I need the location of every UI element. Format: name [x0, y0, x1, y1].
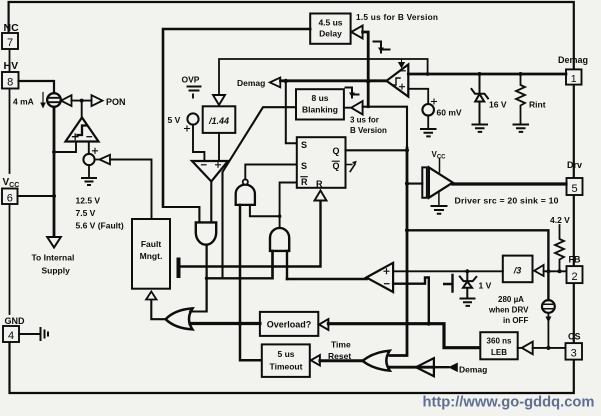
svg-text:Mngt.: Mngt.	[140, 251, 163, 261]
or-gate fault (mirrored)	[166, 308, 193, 329]
current source 280uA	[542, 300, 555, 313]
arrow into timeout right	[311, 355, 320, 366]
label minus FB comp	[385, 283, 390, 285]
wire divider3 output to comparator plus	[393, 270, 503, 272]
junction FB resistor	[558, 269, 562, 273]
svg-text:OVP: OVP	[182, 75, 200, 85]
svg-text:Rint: Rint	[529, 100, 546, 110]
pin 6 Vcc	[2, 189, 18, 205]
junction timeout riser	[238, 321, 242, 325]
capacitor bar FB minus	[444, 275, 452, 292]
nand-gate N1 (up, bubble)	[236, 185, 255, 205]
wire ref select to Fault Mngt	[110, 160, 152, 219]
op-amp demag comparator	[387, 65, 409, 97]
arrow to PON left	[61, 95, 72, 106]
svg-text:Blanking: Blanking	[302, 105, 338, 115]
box 360ns LEB	[480, 332, 517, 359]
junction zener demag line	[478, 72, 482, 76]
junction minus riser overload line	[427, 322, 431, 326]
junction PON	[80, 99, 84, 103]
label plus 60mV	[432, 99, 437, 104]
svg-text:4 mA: 4 mA	[13, 97, 34, 107]
svg-text:PON: PON	[106, 97, 126, 107]
ground driver	[432, 206, 447, 214]
wire delay output to AND input line	[163, 29, 310, 207]
wire pin7 to pin8	[9, 49, 11, 71]
and-gate A2 (up)	[270, 228, 289, 251]
wire A2 right input	[286, 251, 288, 279]
arrow demag input	[449, 363, 457, 371]
label plus OVP	[216, 162, 221, 167]
svg-text:8 us: 8 us	[311, 93, 328, 103]
wire driver ground	[438, 192, 440, 206]
wire or output to fault arrow	[151, 300, 165, 319]
label plus 5V	[185, 126, 190, 131]
wire demag plus to 60mV	[408, 89, 428, 104]
capacitor OVP symbol	[188, 87, 201, 98]
wire or timeout bottom input	[390, 366, 434, 369]
svg-text:S: S	[301, 140, 307, 150]
svg-text:R: R	[316, 179, 323, 189]
label plus ref	[93, 148, 98, 153]
wire overload sense line	[328, 324, 480, 348]
svg-text:7: 7	[7, 37, 13, 49]
junction HV rail tap	[52, 150, 56, 154]
label minus UVLO	[87, 136, 92, 138]
hysteresis glyph demag	[392, 78, 400, 85]
svg-text:Q: Q	[333, 161, 340, 171]
wire fault line A	[180, 201, 321, 267]
svg-text:3 us for: 3 us for	[350, 116, 379, 125]
svg-text:1: 1	[571, 73, 577, 85]
svg-text:5 us: 5 us	[277, 349, 294, 359]
wire pin8 to Vcc pin	[9, 89, 11, 173]
wire ref to ground	[88, 165, 90, 177]
svg-text:NC: NC	[4, 22, 20, 34]
label plus UVLO	[73, 134, 79, 140]
svg-text:in OFF: in OFF	[503, 316, 528, 325]
bar fault output	[177, 260, 181, 277]
svg-text:Overload?: Overload?	[267, 320, 312, 330]
pulse glyph near blanking	[346, 88, 359, 98]
svg-text:Delay: Delay	[319, 29, 342, 39]
wire nand output to latch S mid	[245, 165, 296, 180]
wire current source to Vcc rail	[53, 107, 56, 196]
junction edge bend	[426, 72, 430, 76]
ground 60mV	[421, 129, 436, 136]
svg-text:1.5 us for B Version: 1.5 us for B Version	[356, 12, 438, 22]
buffer into delay box	[351, 26, 362, 39]
svg-text:Demag: Demag	[237, 78, 265, 88]
wire AND output down plus branch	[206, 245, 208, 312]
svg-text:VCC: VCC	[3, 177, 20, 189]
arrow into divider	[213, 95, 225, 105]
wire 5V to OVP comparator minus	[193, 125, 204, 160]
wire latch Q to long vertical	[346, 149, 408, 151]
wire pin6 down to GND pin	[9, 204, 11, 314]
svg-text:4.5 us: 4.5 us	[318, 18, 342, 28]
ground Rint	[514, 125, 529, 132]
latch SR box	[297, 137, 346, 188]
svg-text:FB: FB	[569, 255, 581, 265]
ground symbol at GND pin	[19, 328, 48, 340]
wire line 2b FB comparator output	[287, 278, 367, 281]
junction A2 output branch	[278, 214, 282, 218]
wire nand right input	[250, 205, 280, 216]
svg-text:GND: GND	[5, 316, 26, 326]
wire long vertical (driver node)	[390, 148, 407, 356]
buffer demag reset	[416, 358, 434, 376]
wire line 2a	[207, 252, 273, 279]
junction Q long vertical	[405, 148, 409, 152]
junction Rint demag line	[519, 72, 523, 76]
wire A2 output to latch Rbar	[280, 183, 296, 228]
wire A2 left input	[271, 251, 273, 278]
wire Qbar stub arrow	[346, 165, 355, 172]
wire PON junction to UVLO comparator	[81, 101, 83, 117]
wire overload to or gate	[190, 322, 260, 325]
svg-text:5 V: 5 V	[168, 115, 181, 125]
junction drv rail	[405, 228, 409, 232]
wire demag comparator output	[281, 79, 387, 82]
svg-text:CS: CS	[568, 332, 581, 342]
svg-text:Demag: Demag	[459, 365, 487, 375]
wire blanking input joins long vertical	[363, 107, 407, 148]
junction demag bold	[366, 79, 370, 83]
wire left input AND from delay line	[163, 207, 199, 222]
svg-text:Supply: Supply	[42, 266, 71, 276]
junction driver input	[405, 182, 409, 186]
wire driver output to Drv pin	[453, 182, 566, 185]
resistor FB pullup	[555, 225, 564, 271]
svg-text:3: 3	[571, 348, 577, 360]
zener 1V	[460, 271, 477, 297]
wire divider input from demag sense line	[219, 59, 428, 95]
svg-text:5.6 V (Fault): 5.6 V (Fault)	[76, 221, 124, 231]
junction FB current source riser	[546, 269, 550, 273]
svg-text:S: S	[301, 161, 307, 171]
source 60mV	[422, 104, 434, 116]
svg-text:To Internal: To Internal	[32, 253, 75, 263]
source 5V	[187, 113, 198, 124]
resistor Rint	[516, 74, 525, 124]
svg-text:R: R	[301, 177, 308, 187]
hysteresis glyph UVLO	[78, 126, 87, 136]
pin 1 Demag	[566, 69, 582, 84]
wire OVP output to AND gate	[210, 182, 212, 223]
svg-text:B Version: B Version	[350, 126, 387, 135]
wire S riser down to latch	[286, 81, 296, 143]
pin 7 NC	[2, 33, 18, 49]
wire Vcc into driver	[439, 159, 441, 173]
wire demag node to blanking buffer	[367, 82, 370, 107]
wire PON node	[72, 100, 92, 102]
box divider 1.44	[203, 106, 236, 133]
arrow into latch R	[315, 191, 327, 201]
junction CS 280uA	[546, 346, 550, 350]
arrow ref select left	[95, 155, 110, 165]
wire time reset	[320, 359, 363, 362]
label plus FB comp	[384, 269, 389, 274]
label plus demag	[400, 84, 405, 89]
zener 16V	[472, 74, 489, 124]
pin 3 CS	[566, 343, 583, 360]
ground zener 1V	[461, 299, 475, 306]
buffer into LEB	[518, 342, 533, 355]
svg-text:280 µA: 280 µA	[498, 295, 524, 304]
junction S riser	[284, 79, 288, 83]
svg-text:4.2 V: 4.2 V	[550, 215, 570, 225]
svg-text:Time: Time	[331, 340, 351, 350]
ground ref	[82, 178, 96, 185]
junction zener 1V	[465, 269, 469, 273]
box 8us Blanking	[296, 89, 344, 119]
svg-text:2: 2	[571, 271, 577, 283]
arrow edge marker on line	[399, 60, 405, 68]
svg-text:http://www.go-gddq.com: http://www.go-gddq.com	[423, 394, 595, 411]
ground zener16	[473, 125, 488, 132]
svg-text:when DRV: when DRV	[488, 306, 529, 315]
svg-text:Demag: Demag	[558, 55, 588, 65]
arrow 4mA down	[42, 93, 44, 105]
svg-text:Fault: Fault	[141, 239, 161, 249]
wire UVLO plus input tap	[54, 142, 76, 153]
box divider 3	[503, 256, 533, 283]
wire divider to OVP comparator plus	[218, 133, 220, 160]
svg-text:Q: Q	[333, 146, 340, 156]
wire demag node to delay buffer	[363, 32, 369, 82]
svg-text:8: 8	[7, 77, 13, 89]
wire UVLO minus to reference	[88, 142, 90, 155]
svg-text:4: 4	[8, 330, 14, 342]
and-gate A1 (down)	[196, 222, 216, 244]
label minus demag	[401, 70, 406, 72]
wire FB node	[544, 270, 566, 272]
wire demag minus input sense line	[408, 73, 566, 76]
current source I1 (startup)	[47, 93, 61, 107]
svg-text:360 ns: 360 ns	[487, 337, 512, 346]
arrow into Fault Mngt bottom	[146, 292, 156, 300]
arrow into overload right	[319, 319, 328, 330]
svg-text:/3: /3	[513, 266, 522, 276]
buffer into divider3	[534, 265, 543, 276]
svg-text:Drv: Drv	[567, 160, 582, 170]
wire 60mV to ground	[427, 116, 429, 128]
buffer into blanking box	[344, 101, 363, 115]
wire nand left input down to timeout line	[240, 205, 261, 360]
wire buffer input	[434, 366, 449, 368]
svg-text:16 V: 16 V	[489, 100, 507, 110]
wire HV pin to current source	[19, 81, 55, 93]
svg-text:/1.44: /1.44	[208, 116, 229, 126]
op-amp UVLO comparator	[66, 118, 99, 142]
arrow PON right	[92, 95, 103, 106]
pin 8 HV	[2, 72, 19, 89]
wire FB comp minus riser	[393, 278, 429, 323]
svg-text:1 V: 1 V	[479, 281, 492, 291]
svg-text:5: 5	[571, 183, 577, 195]
wire OVP node diagonal to demag S riser	[223, 107, 297, 278]
svg-text:HV: HV	[4, 60, 19, 72]
op-amp OVP comparator	[192, 161, 228, 182]
pulse glyph near delay	[374, 42, 390, 53]
svg-text:Driver src = 20 sink = 10: Driver src = 20 sink = 10	[455, 196, 559, 206]
wire drv node down rail	[407, 230, 548, 300]
wire CS pin to LEB buffer	[533, 347, 566, 349]
wire driver input	[407, 183, 422, 185]
pin 5 Drv	[567, 178, 583, 195]
arrow to internal supply	[47, 237, 61, 248]
svg-text:6: 6	[7, 193, 13, 205]
pin 2 FB	[567, 266, 583, 283]
box Overload	[260, 312, 318, 336]
box 4.5us Delay	[310, 14, 350, 44]
or-gate timeout (mirrored)	[363, 351, 390, 371]
junction Vcc pin	[18, 195, 55, 197]
wire Vcc rail to internal supply	[53, 196, 56, 236]
svg-text:12.5 V: 12.5 V	[76, 196, 101, 206]
op-amp FB comparator	[366, 263, 393, 292]
svg-text:60 mV: 60 mV	[437, 108, 462, 118]
buffer driver	[422, 167, 427, 197]
junction AND output line2a	[205, 277, 209, 281]
svg-text:7.5 V: 7.5 V	[76, 208, 96, 218]
pin 4 GND	[3, 326, 19, 342]
svg-text:Timeout: Timeout	[270, 362, 303, 372]
arrow Demag label	[270, 78, 281, 88]
wire or top input from AND output	[190, 245, 207, 312]
box 5us Timeout	[262, 344, 310, 377]
box Fault Mngt	[132, 219, 170, 289]
label minus OVP	[202, 164, 207, 166]
svg-text:LEB: LEB	[491, 348, 507, 357]
voltage reference 12.5/7.5V	[83, 154, 94, 165]
arrow 280uA down	[547, 313, 549, 347]
